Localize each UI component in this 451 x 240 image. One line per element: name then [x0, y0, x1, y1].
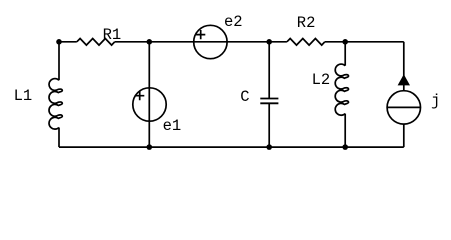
wire L1 top lead [58, 42, 60, 80]
wire top rail left segment [59, 41, 77, 43]
node top L2 [342, 39, 348, 45]
inductor L1 [49, 79, 62, 130]
resistor R2 [287, 39, 325, 46]
voltage source e1 [133, 88, 166, 121]
node top-left [56, 39, 62, 45]
wire capacitor top lead [268, 42, 270, 99]
wire capacitor bottom lead [268, 103, 270, 147]
wire top rail right segment [325, 41, 404, 43]
node bottom L2 [342, 144, 348, 150]
wire L2 top lead [344, 42, 346, 66]
resistor R1 [77, 39, 115, 46]
node bottom C [266, 144, 272, 150]
inductor L2 [335, 64, 348, 115]
node bottom e1 [147, 144, 153, 150]
voltage source e2 [194, 25, 227, 58]
label R2 [297, 16, 316, 32]
capacitor C [260, 99, 278, 104]
label e1 [163, 119, 182, 135]
wire L2 bottom lead [344, 114, 346, 148]
wire right drop to current source [403, 42, 405, 91]
wire current source bottom [403, 124, 405, 147]
wire top rail middle segment [115, 41, 287, 43]
wire e1 branch [148, 42, 150, 147]
label C [240, 90, 249, 106]
label e2 [224, 15, 243, 31]
node top e1 [147, 39, 153, 45]
label j [431, 94, 440, 110]
wire bottom rail [59, 146, 404, 148]
current source j [387, 74, 420, 124]
label L1 [14, 89, 33, 105]
label L2 [312, 73, 331, 89]
wire L1 bottom lead [58, 128, 60, 148]
node top C [266, 39, 272, 45]
label R1 [103, 28, 122, 44]
